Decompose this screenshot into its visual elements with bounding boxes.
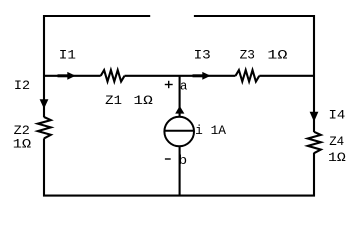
svg-text:I3: I3 — [194, 49, 211, 63]
wire: node a stub (middle wire down to current source) — [179, 76, 181, 117]
current arrow I3 shaft (right, on middle wire) — [193, 74, 205, 77]
wire: left vertical lower + bottom horizontal + right vertical lower — [44, 138, 314, 195]
current arrow I2 (down, on left wire) — [40, 99, 49, 109]
svg-text:i 1A: i 1A — [195, 124, 226, 138]
current arrow I1 head — [67, 72, 75, 80]
svg-text:1Ω: 1Ω — [328, 151, 346, 165]
resistor Z4 — [308, 132, 321, 153]
wire: middle horizontal, left segment — [44, 75, 101, 77]
plus sign (node a polarity) — [165, 81, 173, 88]
current source i (circle with diameter bar) — [164, 117, 194, 147]
resistor Z1 — [101, 70, 125, 81]
svg-text:1Ω: 1Ω — [13, 137, 32, 151]
wire: node b stub (current source down to bottom wire) — [179, 146, 181, 195]
svg-text:I2: I2 — [14, 79, 30, 93]
current arrow I1 shaft (right, on middle wire) — [58, 74, 70, 77]
current source arrow (up, into node a) — [175, 106, 184, 114]
current arrow I4 (down, on right wire) — [310, 112, 319, 122]
svg-text:Z3: Z3 — [240, 49, 255, 63]
svg-text:I4: I4 — [329, 109, 346, 123]
svg-text:1Ω: 1Ω — [133, 94, 153, 108]
svg-text:Z1: Z1 — [105, 94, 122, 108]
wire: middle horizontal, center segment — [125, 75, 236, 77]
svg-text:1Ω: 1Ω — [267, 49, 288, 63]
svg-text:Z4: Z4 — [329, 135, 344, 149]
resistor Z3 — [236, 70, 260, 81]
minus sign (node b polarity) — [165, 158, 171, 160]
wire: middle horizontal, right segment — [259, 75, 315, 77]
current arrow I3 head — [202, 72, 210, 80]
svg-text:a: a — [180, 80, 188, 94]
svg-text:b: b — [178, 154, 187, 168]
wire: top-left horizontal segment + left vertical upper — [44, 16, 150, 117]
svg-text:I1: I1 — [59, 49, 76, 63]
wire: right vertical upper + top-right horizontal segment — [194, 16, 314, 132]
svg-text:Z2: Z2 — [14, 124, 30, 138]
resistor Z2 — [38, 117, 51, 138]
